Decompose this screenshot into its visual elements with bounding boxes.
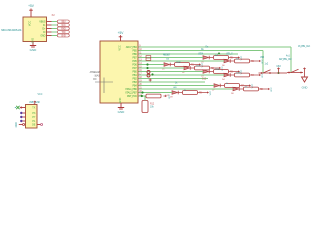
svg-text:+5V: +5V: [28, 4, 35, 8]
svg-text:R1: R1: [191, 64, 195, 67]
svg-text:VCC: VCC: [202, 62, 204, 67]
svg-text:GND: GND: [119, 98, 122, 104]
svg-text:GND: GND: [302, 86, 308, 90]
svg-text:TX: TX: [32, 107, 35, 110]
svg-text:VCC: VCC: [38, 94, 43, 96]
svg-text:10k: 10k: [166, 58, 170, 60]
svg-text:D7: D7: [212, 90, 215, 92]
svg-text:VCC: VCC: [262, 73, 264, 78]
svg-text:VCC: VCC: [241, 55, 243, 60]
svg-text:RESET: RESET: [163, 53, 171, 56]
svg-text:D3: D3: [201, 76, 204, 78]
svg-text:1x2: 1x2: [265, 64, 269, 66]
svg-text:220R: 220R: [196, 65, 201, 67]
svg-text:RST_PC6: RST_PC6: [127, 95, 137, 98]
svg-text:GND: GND: [118, 110, 126, 114]
svg-text:220R: 220R: [176, 62, 181, 64]
svg-text:D12: D12: [202, 79, 207, 81]
svg-text:9W_PBL_CM: 9W_PBL_CM: [279, 58, 291, 61]
svg-text:10k: 10k: [150, 107, 155, 109]
svg-text:R6: R6: [251, 60, 255, 63]
svg-text:R3: R3: [230, 71, 234, 74]
svg-text:VCC: VCC: [222, 66, 224, 71]
svg-text:VCC: VCC: [29, 21, 32, 26]
svg-text:X2: X2: [52, 13, 56, 17]
svg-text:VCC: VCC: [169, 94, 171, 99]
svg-text:MINI-USB-32005-201: MINI-USB-32005-201: [1, 29, 22, 32]
svg-text:GND: GND: [32, 38, 35, 44]
svg-text:220R: 220R: [215, 69, 220, 71]
svg-text:1k: 1k: [175, 82, 178, 84]
svg-text:D1: D1: [162, 69, 165, 71]
svg-text:R12: R12: [150, 104, 155, 106]
svg-text:R5: R5: [230, 57, 234, 60]
svg-text:U$2: U$2: [260, 57, 265, 59]
svg-text:220R: 220R: [236, 72, 241, 74]
svg-text:U$3: U$3: [276, 66, 281, 68]
svg-text:OE: OE: [32, 124, 36, 127]
svg-text:GND: GND: [40, 35, 45, 38]
svg-text:GND: GND: [30, 48, 38, 52]
svg-text:R9: R9: [199, 92, 203, 95]
svg-text:D8: D8: [231, 93, 234, 95]
svg-text:16_PB1_CLK: 16_PB1_CLK: [298, 45, 311, 48]
svg-text:VCC: VCC: [271, 87, 273, 92]
svg-text:-16AU: -16AU: [94, 74, 100, 77]
svg-text:VCC: VCC: [252, 83, 254, 88]
svg-text:GND: GND: [16, 122, 18, 127]
svg-text:VCC: VCC: [241, 69, 243, 74]
svg-text:R4: R4: [251, 74, 255, 77]
svg-text:+5V: +5V: [118, 31, 125, 35]
svg-text:VCC: VCC: [210, 90, 212, 95]
svg-text:R8: R8: [260, 88, 264, 91]
svg-text:4x1: 4x1: [286, 55, 291, 58]
svg-text:LED_G: LED_G: [226, 53, 233, 55]
svg-text:GND: GND: [61, 34, 66, 37]
svg-text:VCC: VCC: [119, 45, 122, 50]
svg-text:D4: D4: [222, 79, 225, 81]
svg-text:LED: LED: [173, 87, 177, 89]
svg-text:D2: D2: [182, 72, 185, 74]
